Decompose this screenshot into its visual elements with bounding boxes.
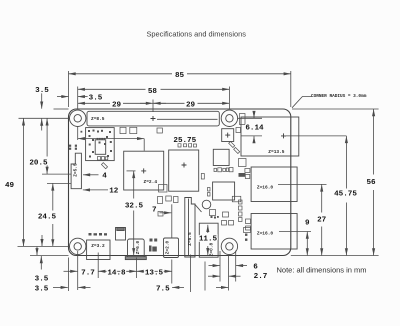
svg-text:13.5: 13.5 <box>145 269 164 277</box>
svg-text:7.7: 7.7 <box>81 269 95 277</box>
svg-text:6: 6 <box>253 263 258 271</box>
svg-text:24.5: 24.5 <box>38 213 57 221</box>
svg-text:14.8: 14.8 <box>107 269 126 277</box>
svg-text:Z=5.5: Z=5.5 <box>72 163 78 177</box>
svg-text:32.5: 32.5 <box>125 202 144 210</box>
svg-text:Z=8.5: Z=8.5 <box>91 116 105 122</box>
svg-text:9: 9 <box>305 219 310 227</box>
svg-text:Z=16.0: Z=16.0 <box>257 231 274 237</box>
svg-text:Z=13.5: Z=13.5 <box>268 149 285 155</box>
svg-text:Z=0.8: Z=0.8 <box>209 242 215 256</box>
svg-text:6.14: 6.14 <box>245 124 264 132</box>
svg-text:20.5: 20.5 <box>29 160 48 168</box>
svg-text:85: 85 <box>175 72 185 80</box>
svg-text:4: 4 <box>102 173 107 181</box>
svg-text:11.5: 11.5 <box>199 236 218 244</box>
svg-text:3.5: 3.5 <box>35 87 49 95</box>
svg-text:29: 29 <box>186 101 196 109</box>
svg-text:25.75: 25.75 <box>173 137 196 145</box>
svg-text:27: 27 <box>317 217 327 225</box>
svg-text:7: 7 <box>152 206 157 214</box>
svg-text:Z=16.0: Z=16.0 <box>257 185 274 191</box>
svg-text:Z=2.4: Z=2.4 <box>144 179 158 185</box>
svg-text:49: 49 <box>5 182 15 190</box>
svg-text:3.5: 3.5 <box>35 286 49 294</box>
svg-text:CORNER RADIUS = 3.0mm: CORNER RADIUS = 3.0mm <box>311 94 367 99</box>
svg-text:Z=2.0: Z=2.0 <box>164 240 170 254</box>
svg-text:Z=5.5: Z=5.5 <box>187 232 193 246</box>
svg-text:58: 58 <box>148 88 158 96</box>
svg-text:2.7: 2.7 <box>254 273 268 281</box>
svg-text:Specifications and dimensions: Specifications and dimensions <box>147 30 247 39</box>
svg-text:45.75: 45.75 <box>334 190 357 198</box>
svg-text:12: 12 <box>109 188 119 196</box>
svg-text:Note: all dimensions in mm: Note: all dimensions in mm <box>277 266 367 275</box>
svg-text:3.5: 3.5 <box>89 94 103 102</box>
svg-text:Z=3.2: Z=3.2 <box>91 243 105 249</box>
svg-text:Z=6.0: Z=6.0 <box>135 240 141 254</box>
svg-text:3.5: 3.5 <box>35 276 49 284</box>
svg-text:7.5: 7.5 <box>156 286 170 294</box>
svg-text:29: 29 <box>112 101 122 109</box>
svg-text:56: 56 <box>366 179 376 187</box>
